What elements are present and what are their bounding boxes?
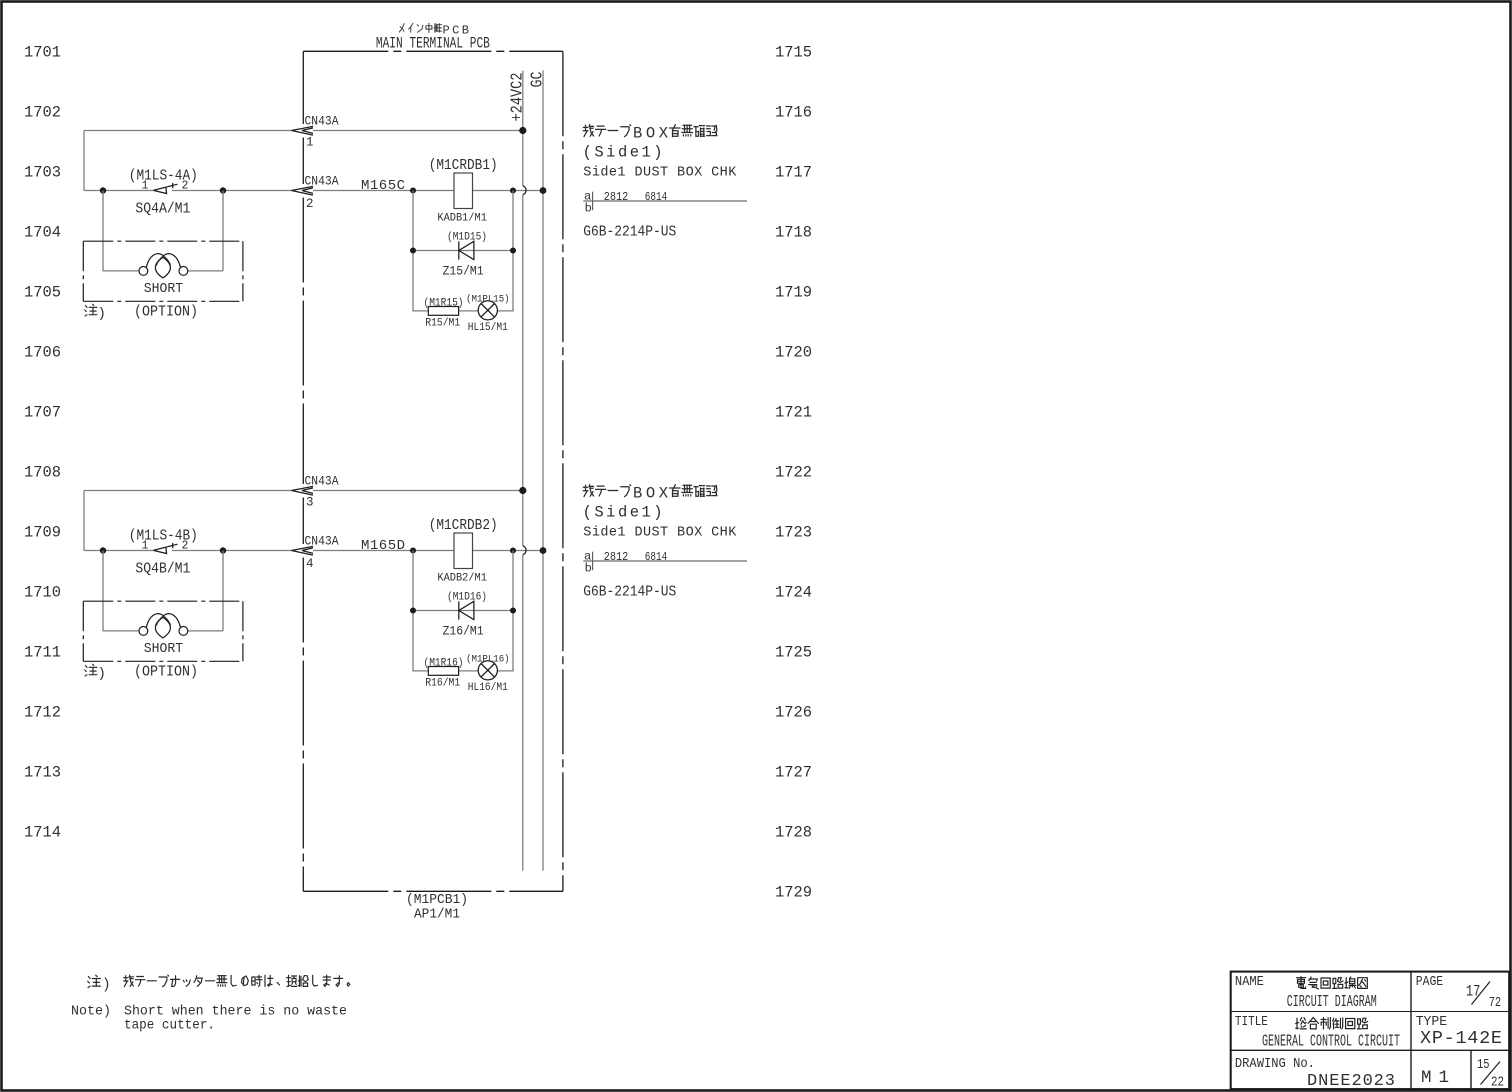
svg-text:CIRCUIT DIAGRAM: CIRCUIT DIAGRAM [1287, 993, 1377, 1012]
net GC vertical rail [542, 70, 544, 870]
wire main rung [84, 550, 153, 552]
wire 1708 upper rung [84, 490, 292, 492]
wire relay branch loop [413, 551, 513, 671]
title 電気回路線図 [1296, 977, 1367, 989]
svg-text:R16/M1: R16/M1 [425, 678, 460, 690]
svg-text:R15/M1: R15/M1 [425, 318, 460, 330]
svg-text:BOX: BOX [633, 125, 669, 143]
svg-text:1710: 1710 [24, 584, 61, 602]
junction +24VC2 upper [519, 487, 526, 494]
svg-text:HL15/M1: HL15/M1 [468, 322, 508, 334]
svg-text:SHORT: SHORT [144, 281, 184, 297]
svg-text:(M1PL15): (M1PL15) [466, 293, 510, 305]
svg-text:1728: 1728 [775, 824, 812, 842]
sheet number 15/22 [1477, 1058, 1504, 1091]
junction option right [220, 187, 226, 193]
wire left drop [83, 491, 85, 551]
wire option drop left [102, 551, 104, 631]
rail hop over rung [523, 186, 526, 195]
junction option left [100, 187, 106, 193]
svg-text:2: 2 [306, 197, 314, 211]
label メイン中継PCB [399, 23, 469, 37]
note 注） mark [88, 975, 101, 987]
svg-text:(M1D16): (M1D16) [447, 592, 487, 604]
svg-text:CN43A: CN43A [305, 473, 339, 488]
svg-text:M165C: M165C [361, 178, 405, 194]
svg-text:b: b [585, 561, 592, 575]
svg-text:XP-142E: XP-142E [1420, 1028, 1502, 1049]
svg-text:): ) [98, 666, 106, 682]
svg-text:1724: 1724 [775, 584, 812, 602]
relay coil KADB2/M1 [454, 533, 473, 569]
connector CN43A pin 2 [292, 186, 314, 195]
svg-text:G6B-2214P-US: G6B-2214P-US [583, 585, 676, 601]
svg-text:CN43A: CN43A [305, 533, 339, 548]
short link (removable jumper) SHORT [139, 254, 188, 278]
svg-text:(Side1): (Side1) [583, 144, 663, 162]
svg-text:TITLE: TITLE [1235, 1014, 1268, 1030]
svg-text:1723: 1723 [775, 524, 812, 542]
svg-text:1713: 1713 [24, 764, 61, 782]
diode Z16/M1 [459, 601, 474, 619]
svg-text:1726: 1726 [775, 704, 812, 722]
label 注） option note mark [85, 304, 97, 316]
wire option drop left [102, 191, 104, 271]
svg-text:1720: 1720 [775, 344, 812, 362]
svg-text:1714: 1714 [24, 824, 61, 842]
svg-text:1722: 1722 [775, 464, 812, 482]
svg-text:(M1PL16): (M1PL16) [466, 653, 510, 665]
junction option right [220, 547, 226, 553]
wire option drop right [222, 191, 224, 271]
junction relay branch right [510, 548, 516, 554]
svg-text:): ) [98, 306, 106, 322]
svg-text:Side1 DUST BOX CHK: Side1 DUST BOX CHK [583, 166, 737, 181]
svg-text:(M1D15): (M1D15) [447, 232, 487, 244]
svg-text:6814: 6814 [645, 550, 668, 564]
svg-text:Note): Note) [71, 1004, 111, 1020]
wire short-link arms [103, 270, 139, 272]
label 残テープBOX有無確認 [583, 125, 630, 137]
resistor R15/M1 [428, 307, 458, 316]
note Japanese text 残テープカッター無しの時は、短絡します。 [124, 975, 350, 987]
title block frame [1231, 972, 1510, 1090]
svg-text:tape cutter.: tape cutter. [124, 1018, 215, 1034]
wire diode row [413, 250, 513, 252]
svg-text:1704: 1704 [24, 224, 61, 242]
svg-text:22: 22 [1491, 1076, 1504, 1091]
svg-text:1711: 1711 [24, 644, 61, 662]
svg-text:1702: 1702 [24, 104, 61, 122]
svg-text:): ) [102, 978, 111, 994]
resistor R16/M1 [428, 667, 458, 676]
svg-text:6814: 6814 [645, 190, 668, 204]
svg-text:1717: 1717 [775, 164, 812, 182]
svg-text:Z16/M1: Z16/M1 [443, 624, 484, 638]
junction relay branch left [410, 548, 416, 554]
limit switch contact SQ4B/M1 [153, 543, 177, 554]
junction diode right [510, 608, 516, 614]
svg-text:(OPTION): (OPTION) [134, 665, 198, 681]
junction +24VC2 upper [519, 127, 526, 134]
wire diode row [413, 610, 513, 612]
svg-text:1709: 1709 [24, 524, 61, 542]
wire short-link arms [103, 630, 139, 632]
svg-text:BOX: BOX [633, 485, 669, 503]
pilot lamp HL15/M1 [478, 301, 497, 320]
label M1PCB1 below box [406, 893, 468, 923]
contact rule line [583, 560, 747, 562]
svg-text:2812: 2812 [604, 190, 629, 204]
svg-text:DNEE2023: DNEE2023 [1307, 1072, 1395, 1091]
svg-text:DRAWING No.: DRAWING No. [1235, 1056, 1315, 1072]
label 残テープBOX有無確認 [583, 485, 630, 497]
svg-text:GC: GC [528, 71, 547, 87]
junction option left [100, 547, 106, 553]
svg-text:2812: 2812 [604, 550, 629, 564]
svg-text:1: 1 [306, 136, 314, 150]
svg-text:NAME: NAME [1235, 974, 1264, 990]
svg-text:1705: 1705 [24, 284, 61, 302]
junction diode left [410, 248, 416, 254]
svg-text:72: 72 [1489, 995, 1502, 1011]
junction relay branch right [510, 188, 516, 194]
svg-text:MAIN TERMINAL PCB: MAIN TERMINAL PCB [376, 35, 490, 53]
net +24VC2 vertical rail [522, 71, 524, 186]
svg-text:(M1CRDB1): (M1CRDB1) [429, 158, 498, 174]
label 注） option note mark [85, 664, 97, 676]
junction GC rail [540, 547, 547, 554]
junction relay branch left [410, 188, 416, 194]
title 総合制御回路 [1296, 1018, 1368, 1029]
svg-text:PAGE: PAGE [1416, 974, 1444, 990]
svg-text:(Side1): (Side1) [583, 504, 663, 522]
svg-text:G6B-2214P-US: G6B-2214P-US [583, 225, 676, 241]
wire relay branch loop [413, 191, 513, 311]
svg-text:M165D: M165D [361, 538, 405, 554]
svg-text:1725: 1725 [775, 644, 812, 662]
svg-text:3: 3 [306, 496, 314, 510]
svg-text:SQ4A/M1: SQ4A/M1 [135, 201, 190, 217]
svg-text:(M1PCB1): (M1PCB1) [406, 893, 468, 908]
svg-text:1707: 1707 [24, 404, 61, 422]
svg-text:1727: 1727 [775, 764, 812, 782]
svg-text:4: 4 [306, 557, 314, 571]
svg-text:KADB1/M1: KADB1/M1 [437, 213, 487, 225]
rail hop over rung [523, 546, 526, 555]
svg-text:1719: 1719 [775, 284, 812, 302]
svg-text:CN43A: CN43A [305, 173, 339, 188]
PCB boundary box M1PCB1 MAIN TERMINAL PCB [303, 51, 563, 891]
svg-text:GENERAL CONTROL CIRCUIT: GENERAL CONTROL CIRCUIT [1262, 1032, 1400, 1051]
contact rule line [583, 200, 747, 202]
svg-text:1706: 1706 [24, 344, 61, 362]
diode Z15/M1 [459, 241, 474, 259]
svg-text:1729: 1729 [775, 884, 812, 902]
svg-text:1708: 1708 [24, 464, 61, 482]
option dashed box [83, 241, 243, 301]
short link (removable jumper) SHORT [139, 614, 188, 638]
wire option drop right [222, 551, 224, 631]
svg-text:KADB2/M1: KADB2/M1 [437, 573, 487, 585]
svg-text:b: b [585, 201, 592, 215]
svg-text:(M1R15): (M1R15) [424, 298, 464, 310]
wire 1702 upper rung [84, 130, 292, 132]
svg-text:1718: 1718 [775, 224, 812, 242]
svg-text:(M1LS-4A): (M1LS-4A) [129, 169, 198, 185]
svg-text:SQ4B/M1: SQ4B/M1 [135, 561, 190, 577]
svg-text:HL16/M1: HL16/M1 [468, 682, 508, 694]
svg-text:(OPTION): (OPTION) [134, 305, 198, 321]
svg-text:1716: 1716 [775, 104, 812, 122]
svg-text:1703: 1703 [24, 164, 61, 182]
pilot lamp HL16/M1 [478, 661, 497, 680]
limit switch contact SQ4A/M1 [153, 183, 177, 194]
svg-text:1721: 1721 [775, 404, 812, 422]
connector CN43A pin 4 [292, 546, 314, 555]
junction diode right [510, 248, 516, 254]
svg-text:(M1CRDB2): (M1CRDB2) [429, 518, 498, 534]
relay coil KADB1/M1 [454, 173, 473, 209]
svg-text:SHORT: SHORT [144, 641, 184, 657]
svg-text:CN43A: CN43A [305, 113, 339, 128]
wire main rung [84, 190, 153, 192]
connector CN43A pin 3 [292, 486, 314, 495]
svg-text:1712: 1712 [24, 704, 61, 722]
svg-text:(M1LS-4B): (M1LS-4B) [129, 529, 198, 545]
option dashed box [83, 601, 243, 661]
svg-text:AP1/M1: AP1/M1 [414, 907, 460, 923]
svg-text:1715: 1715 [775, 44, 812, 62]
right line numbers 1715-1729 [775, 44, 812, 902]
svg-text:+24VC2: +24VC2 [508, 73, 527, 122]
connector CN43A pin 1 [292, 126, 314, 135]
page number 17/72 [1466, 982, 1501, 1011]
svg-text:Side1 DUST BOX CHK: Side1 DUST BOX CHK [583, 526, 737, 541]
svg-text:(M1R16): (M1R16) [424, 658, 464, 670]
wire left drop [83, 131, 85, 191]
svg-text:17: 17 [1466, 982, 1481, 1000]
svg-text:15: 15 [1477, 1058, 1490, 1073]
svg-text:1701: 1701 [24, 44, 61, 62]
svg-text:Z15/M1: Z15/M1 [443, 264, 484, 278]
junction diode left [410, 608, 416, 614]
left line numbers 1701-1714 [24, 44, 61, 842]
junction GC rail [540, 187, 547, 194]
